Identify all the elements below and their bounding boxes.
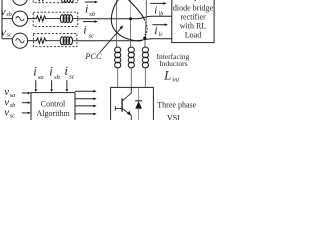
arrowhead gate 1	[93, 90, 96, 93]
arrowhead gate 3	[93, 105, 96, 108]
source Vsa (clipped at top)	[12, 0, 27, 5]
svg-text:i: i	[85, 1, 88, 15]
wire Vsb to impedance box	[28, 18, 36, 20]
source impedance box phase c	[33, 33, 77, 46]
source impedance box phase a (clipped)	[33, 0, 78, 3]
svg-text:Control: Control	[41, 100, 66, 109]
diode leg wire	[138, 87, 140, 121]
arrow vsa input	[22, 92, 28, 94]
svg-text:Three phase: Three phase	[174, 0, 213, 1]
arrowhead isc	[95, 20, 98, 23]
svg-text:sa: sa	[38, 74, 44, 81]
transistor IGBT bar	[121, 98, 123, 111]
box control algorithm	[31, 93, 75, 122]
wire neutral bus	[2, 0, 13, 39]
PCC tap wire phase a	[116, 0, 118, 47]
svg-text:i: i	[33, 65, 37, 79]
svg-text:sb: sb	[10, 102, 16, 109]
wire L to box edge phase b	[73, 18, 78, 20]
svg-text:i: i	[49, 65, 53, 79]
arrow vsb input	[22, 102, 28, 104]
svg-text:v: v	[4, 107, 9, 119]
arrow current isb	[85, 1, 96, 3]
source Vsb	[12, 11, 27, 26]
arrowhead ilb	[163, 2, 166, 5]
arrowhead IGBT emitter	[127, 111, 131, 116]
svg-text:rectifier: rectifier	[180, 12, 206, 21]
svg-text:diode bridge: diode bridge	[173, 3, 214, 12]
PCC oval left arc	[111, 0, 142, 41]
arrow gate signal 1	[75, 90, 94, 92]
arrowhead vsb	[28, 102, 31, 104]
svg-text:Three phase: Three phase	[157, 100, 196, 109]
svg-text:Algorithm: Algorithm	[37, 109, 71, 118]
source impedance box phase b	[33, 12, 78, 26]
sine mark Vsc	[16, 39, 25, 43]
svg-text:sa: sa	[10, 92, 16, 99]
svg-text:sb: sb	[89, 11, 96, 18]
inductor Lsb	[60, 15, 72, 23]
svg-text:L: L	[163, 69, 171, 83]
arrow current ilb	[151, 2, 164, 4]
transistor IGBT gate	[115, 106, 121, 110]
svg-text:v: v	[1, 6, 6, 18]
source Vsc	[12, 33, 27, 48]
svg-text:i: i	[83, 23, 86, 37]
junction node PCC phase b	[129, 17, 132, 20]
PCC oval dotted arc	[144, 22, 147, 38]
arrowhead isb sense	[50, 89, 52, 92]
arrowhead isa sense	[35, 89, 37, 92]
arrow isa sense	[35, 80, 37, 89]
svg-text:int: int	[172, 77, 179, 84]
arrow gate signal 4	[75, 113, 94, 115]
interfacing inductor phase a	[115, 47, 121, 68]
arrowhead vsa	[28, 92, 31, 94]
PCC tap wire phase b upper	[130, 0, 132, 19]
sine mark Vsb	[16, 17, 25, 21]
resistor Rsc	[35, 38, 46, 43]
PCC tap wire phase c	[145, 0, 146, 47]
wire L to box edge phase c	[73, 40, 77, 42]
arrowhead isb	[95, 1, 98, 4]
interfacing inductor phase b	[128, 47, 134, 68]
svg-text:sc: sc	[89, 32, 95, 39]
transistor IGBT emitter	[123, 109, 132, 121]
diode D1	[135, 101, 142, 108]
diode cathode bar	[135, 100, 142, 102]
arrow vsc input	[22, 112, 28, 114]
svg-text:sc: sc	[69, 73, 75, 80]
svg-text:PCC: PCC	[84, 52, 102, 61]
inductor Lsc	[60, 37, 72, 45]
svg-text:sc: sc	[7, 31, 12, 38]
svg-text:i: i	[154, 23, 157, 37]
arrow isc sense	[66, 80, 68, 89]
svg-text:sb: sb	[54, 74, 61, 81]
interfacing inductor phase c	[142, 47, 148, 68]
arrowhead isc sense	[66, 89, 68, 92]
arrow current ilc	[152, 24, 165, 26]
svg-text:v: v	[1, 26, 6, 38]
arrowhead ilc	[165, 23, 168, 26]
svg-text:sc: sc	[10, 112, 15, 119]
arrow gate signal 2	[75, 98, 94, 100]
wire inductor c to VSI	[144, 68, 146, 88]
wire phase b to PCC and load	[78, 16, 172, 19]
svg-text:i: i	[154, 4, 157, 16]
resistor Rsb	[35, 16, 46, 21]
PCC tap wire phase b lower	[130, 19, 132, 48]
arrowhead PCC leader	[120, 25, 124, 29]
arrow current isc	[83, 21, 95, 23]
arrow gate signal 3	[75, 105, 94, 107]
box diode bridge load	[172, 0, 214, 43]
wire R to L phase b	[46, 18, 61, 20]
arrow isb sense	[51, 80, 53, 89]
wire inductor b to VSI	[130, 68, 132, 88]
svg-text:Load: Load	[185, 31, 201, 40]
resistor Rsa (clipped)	[35, 0, 46, 1]
wire R to L phase c	[46, 40, 60, 42]
arrowhead gate 2	[93, 97, 96, 100]
wire inductor a to VSI	[117, 68, 119, 88]
PCC oval upper right arc	[126, 0, 145, 21]
inductor Lsa (clipped)	[61, 0, 73, 2]
svg-text:with RL: with RL	[180, 21, 207, 30]
svg-text:sb: sb	[6, 11, 12, 18]
wire phase c to PCC and load	[77, 39, 172, 41]
svg-text:lc: lc	[159, 32, 164, 38]
arrowhead gate 4	[93, 113, 96, 116]
svg-text:i: i	[64, 64, 68, 78]
junction node PCC phase c	[143, 37, 146, 40]
transistor IGBT collector lead	[123, 87, 132, 100]
svg-text:VSI: VSI	[167, 114, 180, 120]
box VSI	[111, 87, 154, 121]
leader line PCC	[100, 27, 122, 52]
svg-text:lb: lb	[159, 12, 164, 18]
wire Vsc to impedance box	[28, 40, 36, 42]
arrowhead vsc	[28, 112, 31, 114]
svg-text:Inductors: Inductors	[159, 59, 187, 68]
